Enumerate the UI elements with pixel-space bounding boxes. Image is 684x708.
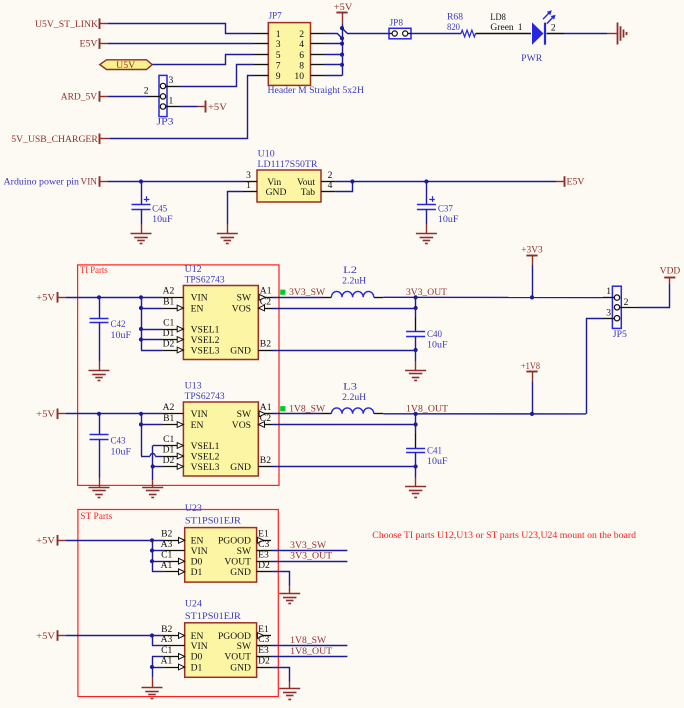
svg-text:1: 1 — [246, 180, 251, 191]
svg-text:TI Parts: TI Parts — [80, 265, 108, 276]
svg-text:JP5: JP5 — [613, 329, 627, 340]
port U5V hexagon — [100, 60, 152, 71]
svg-text:D2: D2 — [163, 338, 175, 349]
junction dots JP7 bus — [340, 26, 344, 67]
svg-text:VSEL1: VSEL1 — [191, 324, 220, 335]
svg-text:8: 8 — [299, 60, 304, 71]
LED LD8 — [490, 10, 556, 64]
svg-text:E5V: E5V — [80, 39, 98, 50]
svg-text:C3: C3 — [258, 634, 269, 645]
svg-text:A1: A1 — [161, 560, 173, 571]
svg-text:GND: GND — [230, 462, 251, 473]
svg-text:7: 7 — [276, 60, 281, 71]
ground U24 GND — [279, 689, 300, 700]
svg-text:ST1PS01EJR: ST1PS01EJR — [185, 515, 242, 526]
svg-text:D1: D1 — [163, 328, 175, 339]
svg-text:U12: U12 — [185, 264, 202, 275]
capacitor C41 — [406, 414, 447, 487]
wire U13 GND to C41 — [273, 466, 416, 468]
wire U23 GND — [271, 572, 290, 594]
svg-text:PWR: PWR — [521, 53, 543, 64]
svg-text:VOS: VOS — [232, 420, 251, 431]
svg-text:LD1117S50TR: LD1117S50TR — [258, 159, 319, 170]
svg-text:C1: C1 — [163, 434, 174, 445]
svg-text:D0: D0 — [191, 652, 203, 663]
svg-text:C40: C40 — [427, 329, 442, 340]
svg-text:3V3_SW: 3V3_SW — [290, 540, 327, 551]
wire +5V rail to U13 VIN — [66, 412, 162, 416]
svg-text:A1: A1 — [161, 655, 173, 666]
svg-text:3: 3 — [276, 39, 281, 50]
svg-text:VIN: VIN — [191, 409, 208, 420]
power +5V (U13) — [36, 409, 66, 421]
svg-text:VSEL3: VSEL3 — [191, 345, 220, 356]
jumper JP8 — [389, 18, 411, 39]
svg-text:C43: C43 — [111, 435, 126, 446]
resistor R68 — [447, 11, 476, 36]
svg-text:10uF: 10uF — [111, 446, 132, 457]
svg-text:D2: D2 — [258, 655, 270, 666]
group box ST Parts — [78, 510, 278, 697]
net label 1V8_SW — [280, 404, 326, 415]
svg-text:ST1PS01EJR: ST1PS01EJR — [185, 611, 242, 622]
power +1V8 — [521, 361, 540, 414]
svg-text:SW: SW — [237, 293, 252, 304]
wire U13 EN+VSEL2 bus — [139, 414, 163, 457]
svg-text:C1: C1 — [161, 645, 172, 656]
svg-text:EN: EN — [191, 303, 204, 314]
svg-text:+5V: +5V — [36, 293, 55, 304]
svg-text:B2: B2 — [260, 338, 271, 349]
port ARD_5V — [61, 91, 108, 102]
ground U10 — [217, 234, 238, 244]
connector JP3 — [144, 75, 179, 128]
svg-text:TPS62743: TPS62743 — [185, 391, 225, 402]
svg-text:A2: A2 — [163, 402, 175, 413]
svg-text:SW: SW — [237, 641, 252, 652]
svg-text:3V3_OUT: 3V3_OUT — [406, 287, 447, 298]
ground C40 — [405, 371, 426, 381]
svg-text:Green: Green — [490, 22, 514, 33]
net label 1V8_OUT — [271, 646, 347, 657]
svg-text:VIN: VIN — [81, 177, 98, 188]
wire U24 EN+VIN bus — [152, 636, 164, 646]
ground C43 — [89, 488, 110, 498]
svg-text:GND: GND — [230, 567, 251, 578]
svg-text:C3: C3 — [258, 539, 269, 550]
wire R68 to LD8 — [476, 33, 532, 35]
wire LD8 to ground — [547, 33, 618, 35]
wire +5V rail to U23 — [66, 538, 164, 542]
ground LED right-facing — [618, 23, 627, 45]
ground U23 GND — [279, 594, 300, 604]
inductor L3 — [322, 382, 383, 414]
svg-text:A3: A3 — [161, 539, 173, 550]
wire JP7 +5V bus — [325, 28, 343, 76]
svg-text:R68: R68 — [447, 11, 463, 22]
svg-text:+1V8: +1V8 — [521, 361, 540, 372]
svg-text:VIN: VIN — [191, 641, 208, 652]
svg-text:C41: C41 — [427, 446, 442, 457]
svg-text:U24: U24 — [185, 599, 202, 610]
svg-text:2.2uH: 2.2uH — [342, 392, 366, 403]
wire JP8 to R68 — [411, 33, 461, 35]
svg-text:10uF: 10uF — [438, 214, 459, 225]
wire U12 VOS feedback — [273, 306, 418, 310]
svg-text:4: 4 — [328, 180, 333, 191]
regulator U10 LD1117S50TR — [243, 149, 335, 202]
svg-text:1V8_SW: 1V8_SW — [290, 635, 327, 646]
svg-text:4: 4 — [299, 39, 304, 50]
svg-text:L3: L3 — [343, 382, 357, 393]
svg-text:D2: D2 — [163, 455, 175, 466]
svg-text:C1: C1 — [161, 550, 172, 561]
port E5V right — [556, 176, 585, 187]
wire U10 Vout rail to E5V — [335, 181, 556, 183]
svg-text:E3: E3 — [258, 645, 269, 656]
svg-text:E5V: E5V — [567, 177, 585, 188]
svg-text:C45: C45 — [152, 203, 167, 214]
wire U5V to JP7 pin5 — [153, 55, 254, 65]
IC U23 ST1PS01EJR — [161, 503, 271, 582]
wire U24 GND — [271, 668, 290, 689]
svg-text:Header M Straight 5x2H: Header M Straight 5x2H — [268, 85, 365, 96]
wire 5V_USB_CHARGER to JP7 pin9 — [110, 76, 254, 139]
svg-text:3: 3 — [606, 307, 611, 318]
capacitor C45 — [132, 182, 173, 234]
svg-text:D1: D1 — [191, 567, 203, 578]
group box TI Parts — [78, 265, 279, 486]
svg-text:2: 2 — [144, 85, 149, 96]
svg-text:2.2uH: 2.2uH — [342, 276, 366, 287]
svg-text:VSEL2: VSEL2 — [191, 451, 220, 462]
svg-text:2: 2 — [551, 22, 556, 33]
capacitor C43 — [90, 414, 132, 487]
wire JP5 pin2 to VDD — [639, 277, 670, 308]
svg-text:3V3_OUT: 3V3_OUT — [290, 551, 332, 562]
wire ARD_5V to JP3 pin2 — [108, 96, 147, 98]
svg-text:2: 2 — [624, 297, 629, 308]
svg-text:9: 9 — [276, 71, 281, 82]
svg-text:B2: B2 — [260, 455, 271, 466]
wire E5V to JP7 pin3 — [108, 43, 254, 45]
wire VIN rail to U10 pin3 — [108, 181, 243, 183]
net label 3V3_SW — [280, 287, 326, 298]
port 5V_USB_CHARGER — [11, 134, 110, 145]
ground C45 — [131, 234, 152, 244]
svg-text:A1: A1 — [260, 402, 272, 413]
svg-text:D1: D1 — [191, 662, 203, 673]
svg-text:C42: C42 — [111, 319, 126, 330]
svg-text:C2: C2 — [260, 413, 271, 424]
svg-text:A3: A3 — [161, 634, 173, 645]
port E5V left — [80, 38, 109, 49]
svg-text:JP8: JP8 — [390, 18, 404, 29]
wire U10 GND to ground — [228, 192, 244, 234]
power VDD — [660, 265, 681, 277]
svg-text:C2: C2 — [260, 296, 271, 307]
connector JP5 — [603, 286, 639, 340]
net label 3V3_OUT — [271, 551, 347, 562]
svg-text:TPS62743: TPS62743 — [185, 274, 225, 285]
svg-text:VSEL2: VSEL2 — [191, 335, 220, 346]
svg-text:VOUT: VOUT — [224, 652, 251, 663]
svg-text:C37: C37 — [438, 203, 453, 214]
wire +5V to JP8 — [342, 28, 389, 33]
svg-text:10: 10 — [294, 71, 304, 82]
svg-text:L2: L2 — [343, 265, 357, 276]
capacitor C40 — [406, 297, 447, 370]
ground U13 VSEL — [142, 488, 163, 498]
svg-text:1: 1 — [606, 286, 611, 297]
IC U24 ST1PS01EJR — [161, 599, 271, 678]
power +3V3 — [521, 244, 543, 297]
svg-text:+3V3: +3V3 — [521, 244, 543, 255]
note choose parts — [372, 530, 636, 541]
wire U13 VSEL1+VSEL3 to ground — [151, 446, 163, 488]
svg-text:10uF: 10uF — [427, 456, 448, 467]
svg-text:VSEL1: VSEL1 — [191, 441, 220, 452]
svg-text:Tab: Tab — [301, 187, 315, 198]
IC U13 TPS62743 — [162, 380, 272, 476]
capacitor C37 — [417, 182, 459, 234]
svg-text:U5V: U5V — [116, 60, 135, 71]
svg-text:+5V: +5V — [36, 631, 55, 642]
svg-text:VDD: VDD — [660, 265, 681, 276]
svg-text:GND: GND — [230, 345, 251, 356]
svg-text:GND: GND — [230, 662, 251, 673]
svg-text:3V3_SW: 3V3_SW — [289, 287, 326, 298]
svg-text:Arduino power pin: Arduino power pin — [4, 177, 80, 188]
wire SW to inductor — [273, 413, 323, 415]
svg-text:A2: A2 — [163, 286, 175, 297]
port VIN with note — [4, 176, 109, 187]
wire U10 Tab joins Vout — [335, 179, 354, 191]
svg-text:GND: GND — [266, 187, 287, 198]
inductor L2 — [322, 265, 383, 297]
wire U24 D0+D1 to ground — [150, 656, 164, 687]
svg-text:E3: E3 — [258, 550, 269, 561]
svg-text:+5V: +5V — [36, 536, 55, 547]
power +5V top — [334, 2, 353, 28]
svg-text:D2: D2 — [258, 560, 270, 571]
svg-text:VOS: VOS — [232, 303, 251, 314]
wire 3V3 rail to JP5 pin1 — [383, 295, 603, 299]
net label 1V8_OUT — [406, 404, 448, 415]
svg-text:EN: EN — [191, 420, 204, 431]
svg-text:ARD_5V: ARD_5V — [61, 92, 98, 103]
svg-text:5V_USB_CHARGER: 5V_USB_CHARGER — [11, 134, 98, 145]
power +5V at JP3 pin1 — [179, 101, 227, 113]
wire SW to inductor — [273, 297, 323, 299]
wire JP3 pin3 to JP7 pin7 — [179, 65, 254, 87]
svg-text:+5V: +5V — [208, 102, 227, 113]
power +5V (U12) — [36, 292, 66, 304]
svg-text:D1: D1 — [163, 444, 175, 455]
IC U12 TPS62743 — [162, 264, 272, 360]
wire U5V_ST_LINK to JP7 pin1 — [108, 24, 254, 34]
wire 1V8 rail — [383, 412, 586, 416]
wire U13 VOS feedback — [273, 422, 418, 426]
wire +5V rail to U12 VIN — [66, 295, 162, 299]
svg-text:10uF: 10uF — [427, 340, 448, 351]
power +5V (U24) — [36, 630, 66, 642]
capacitor C42 — [90, 297, 132, 370]
svg-text:VIN: VIN — [191, 546, 208, 557]
svg-text:VOUT: VOUT — [224, 557, 251, 568]
wire 1V8 riser to JP5 pin3 — [587, 319, 604, 414]
svg-text:VIN: VIN — [191, 293, 208, 304]
net label 1V8_SW — [271, 635, 347, 646]
port U5V_ST_LINK — [35, 18, 108, 29]
junction C37 — [424, 179, 428, 183]
svg-text:D0: D0 — [191, 557, 203, 568]
svg-text:+5V: +5V — [334, 2, 353, 13]
power +5V (U23) — [36, 535, 66, 547]
svg-text:Choose TI parts U12,U13 or ST: Choose TI parts U12,U13 or ST parts U23,… — [372, 530, 636, 541]
svg-text:3: 3 — [169, 75, 174, 86]
wire U12 GND to C40 — [273, 350, 416, 352]
ground C41 — [405, 487, 426, 498]
svg-text:1V8_OUT: 1V8_OUT — [406, 404, 448, 415]
svg-text:JP7: JP7 — [269, 11, 282, 22]
junction C45 — [139, 179, 143, 183]
svg-text:A1: A1 — [260, 286, 272, 297]
svg-text:U13: U13 — [185, 380, 202, 391]
wire +5V rail to U24 — [66, 633, 164, 637]
net label 3V3_SW — [271, 540, 347, 551]
net label 3V3_OUT — [406, 287, 447, 298]
svg-text:+5V: +5V — [36, 409, 55, 420]
svg-text:1: 1 — [518, 22, 523, 33]
svg-text:ST Parts: ST Parts — [80, 511, 112, 522]
svg-text:SW: SW — [237, 546, 252, 557]
wire U12 select bus all high — [139, 297, 163, 350]
svg-text:10uF: 10uF — [152, 214, 173, 225]
wire U23 select bus — [150, 540, 164, 572]
ground U24 D0/D1 — [142, 688, 163, 699]
svg-text:VSEL3: VSEL3 — [191, 462, 220, 473]
ground C37 — [416, 234, 437, 244]
svg-text:10uF: 10uF — [111, 330, 132, 341]
svg-text:1: 1 — [169, 95, 174, 106]
svg-text:JP3: JP3 — [157, 116, 174, 127]
connector JP7 header — [254, 11, 365, 97]
svg-text:1V8_OUT: 1V8_OUT — [290, 646, 332, 657]
svg-text:B1: B1 — [163, 413, 174, 424]
svg-text:B1: B1 — [163, 296, 174, 307]
svg-text:U5V_ST_LINK: U5V_ST_LINK — [35, 19, 98, 30]
svg-text:820: 820 — [447, 22, 460, 33]
svg-text:SW: SW — [237, 409, 252, 420]
ground C42 — [89, 371, 110, 381]
svg-text:U23: U23 — [185, 503, 202, 514]
svg-text:C1: C1 — [163, 317, 174, 328]
